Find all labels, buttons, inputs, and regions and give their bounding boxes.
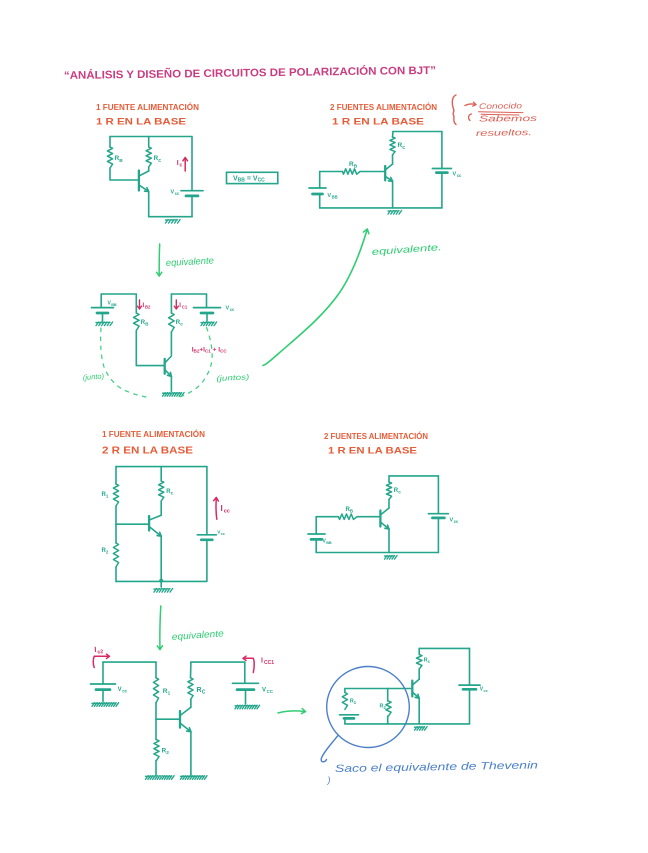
resistor R1 circuit5: [155, 662, 157, 678]
resistor R2 circuit5: [155, 719, 157, 739]
svg-text:Sabemos: Sabemos: [479, 113, 538, 124]
wire top rail circuit3: [116, 466, 207, 468]
current arrow Ic: [184, 158, 186, 171]
transistor Q1: [138, 171, 140, 191]
ground circuit4: [385, 556, 398, 560]
blue circle thevenin: [327, 667, 410, 748]
wire top rail left circuit5: [103, 661, 156, 663]
wire drop to Vcc equiv: [206, 294, 208, 308]
resistor R1 circuit6: [344, 689, 346, 693]
wire top rail circuit1: [110, 136, 192, 138]
wire Rc to top rail circuit5: [190, 662, 192, 678]
svg-text:2 FUENTES ALIMENTACIÓN: 2 FUENTES ALIMENTACIÓN: [324, 432, 428, 441]
battery Vcc right circuit5: [233, 682, 259, 684]
svg-text:c: c: [158, 158, 161, 164]
wire R2 to bottom circuit3: [115, 567, 117, 581]
svg-text:equivalente: equivalente: [171, 628, 224, 643]
battery Vcc equiv: [194, 307, 221, 309]
svg-text:cc: cc: [484, 689, 488, 693]
note box VBB = VCC: [227, 172, 278, 183]
wire VBB to bottom rail: [319, 194, 321, 208]
wire Rc to collector circuit4: [388, 500, 390, 509]
arrow to Conocido: [465, 104, 476, 106]
battery Vcc circuit1: [181, 190, 203, 192]
battery Vcc circuit4: [428, 513, 448, 515]
svg-text:I: I: [177, 160, 179, 167]
battery VBB circuit2: [309, 187, 326, 189]
svg-text:BB: BB: [111, 303, 117, 307]
ground VBB equiv: [96, 322, 113, 326]
svg-text:Saco el equivalente de The: Saco el equivalente de Thevenin: [335, 759, 538, 775]
wire right rail circuit2 bottom: [441, 173, 443, 208]
transistor Q5: [179, 711, 181, 728]
resistor R2 circuit3: [115, 524, 117, 543]
junction dot circuit3: [159, 579, 163, 583]
wire emitter down circuit4: [388, 529, 390, 553]
svg-text:cc: cc: [457, 173, 462, 178]
resistor RB: [107, 147, 112, 168]
wire right rail circuit4 top: [437, 476, 439, 514]
svg-text:B: B: [350, 509, 353, 514]
wire right rail circuit4 bottom: [437, 518, 439, 553]
resistor R2 circuit6: [387, 689, 389, 702]
svg-text:): ): [327, 775, 331, 785]
wire bottom rail circuit3: [116, 580, 206, 582]
svg-text:IB2+IC1 + ICC: IB2+IC1 + ICC: [192, 347, 228, 354]
wire top rail circuit2: [393, 131, 442, 133]
wire base to R1 circuit6: [345, 688, 388, 690]
battery Vcc circuit2: [432, 168, 451, 170]
ground Vcc right circuit5: [235, 705, 260, 709]
svg-text:BB: BB: [332, 195, 338, 200]
resistor RB circuit2 on base wire: [320, 171, 343, 173]
wire top left branch equiv: [101, 293, 136, 295]
svg-text:V: V: [118, 687, 122, 693]
svg-text:2 R EN LA BASE: 2 R EN LA BASE: [102, 446, 194, 457]
wire right rail circuit3 top: [206, 467, 208, 535]
wire Vcc to ground left circuit5: [102, 690, 104, 702]
svg-text:cc: cc: [224, 509, 230, 515]
wire right rail circuit6 top: [469, 648, 471, 685]
svg-text:B2: B2: [145, 304, 151, 309]
svg-text:1: 1: [354, 700, 357, 705]
transistor Q2: [384, 166, 386, 180]
wire top right branch equiv: [171, 293, 206, 295]
svg-text:resueltos.: resueltos.: [476, 127, 532, 138]
wire base circuit6: [388, 688, 413, 690]
wire right rail circuit2 top: [441, 132, 443, 169]
current arrow IB2: [139, 300, 141, 309]
ground circuit3: [160, 581, 162, 587]
current arrow ICC1: [244, 658, 255, 672]
ground Vcc left circuit5: [92, 703, 119, 707]
svg-text:cc: cc: [122, 689, 127, 694]
dashed arc right juntos: [178, 328, 212, 398]
svg-text:c: c: [428, 659, 431, 664]
svg-text:1 R EN LA BASE: 1 R EN LA BASE: [96, 117, 186, 128]
resistor Rc circuit6: [418, 648, 420, 654]
wire bottom rail circuit6: [345, 723, 470, 725]
battery below R1 circuit6: [340, 714, 359, 716]
svg-text:CC: CC: [267, 689, 274, 694]
svg-text:1 R EN LA BASE: 1 R EN LA BASE: [332, 117, 424, 128]
wire Rc to collector: [148, 167, 150, 171]
transistor Q3: [148, 516, 150, 531]
wire left drop to VBB circuit4: [315, 517, 317, 534]
wire Rc to collector circuit3: [160, 501, 162, 515]
resistor Rc: [148, 137, 150, 148]
arrow equivalente down 1: [158, 244, 161, 276]
wire battery to bottom rail circuit6: [344, 718, 346, 724]
current arrow Icc: [215, 498, 218, 519]
svg-text:1: 1: [168, 691, 171, 697]
svg-text:B: B: [145, 322, 148, 327]
svg-text:(juntos): (juntos): [216, 372, 250, 383]
svg-text:C: C: [202, 690, 206, 696]
resistor Rc circuit4: [388, 476, 390, 482]
svg-text:Conocido: Conocido: [479, 101, 523, 111]
wire emitter down circuit2: [392, 181, 394, 208]
svg-text:2: 2: [166, 750, 169, 756]
svg-text:I: I: [261, 658, 263, 665]
svg-text:c: c: [171, 491, 174, 496]
brace annotation: [452, 95, 456, 125]
wire right rail top: [191, 137, 193, 191]
blue curl: [321, 736, 338, 762]
arrow equivalente curve: [263, 230, 367, 366]
wire right rail bottom: [191, 196, 193, 217]
wire left drop to VBB: [319, 172, 321, 189]
resistor Rc circuit5: [188, 678, 193, 700]
wire Vcc to ground right circuit5: [245, 690, 247, 704]
wire right rail circuit6 bottom: [469, 689, 471, 724]
wire RB to base node: [110, 168, 139, 180]
ground R2 circuit5: [146, 776, 175, 780]
wire left drop to RB: [109, 137, 111, 148]
svg-text:equivalente.: equivalente.: [371, 242, 442, 258]
wire emitter down circuit3: [160, 536, 162, 581]
svg-text:2: 2: [106, 550, 109, 555]
resistor RB circuit4 on base wire: [316, 516, 338, 518]
wire emitter to ground equiv: [170, 376, 172, 391]
wire Rc to collector equiv: [170, 332, 172, 355]
svg-text:“ANÁLISIS Y DISEÑO DE CIRC: “ANÁLISIS Y DISEÑO DE CIRCUITOS DE POLAR…: [64, 64, 436, 82]
wire R1 to base circuit5: [155, 703, 157, 720]
svg-text:equivalente: equivalente: [166, 255, 215, 268]
wire base circuit5: [156, 718, 180, 720]
wire base circuit3: [116, 523, 149, 525]
svg-text:c: c: [402, 145, 405, 151]
note text Sabemos: [469, 114, 472, 121]
resistor R1 circuit3: [115, 467, 117, 484]
wire RB to base equiv: [136, 331, 164, 366]
resistor Rc circuit2: [392, 132, 395, 138]
transistor Q equiv: [164, 359, 166, 374]
resistor RB equiv: [135, 294, 137, 313]
svg-text:C1: C1: [182, 304, 188, 309]
battery Vcc circuit6: [459, 684, 480, 686]
svg-text:1 FUENTE ALIMENTACIÓN: 1 FUENTE ALIMENTACIÓN: [96, 103, 199, 112]
svg-text:VBB = VCC: VBB = VCC: [233, 176, 265, 184]
ground circuit6: [415, 727, 428, 731]
svg-text:c: c: [398, 490, 401, 495]
wire Vcc to ground equiv: [206, 313, 208, 321]
wire top rail circuit6: [419, 647, 469, 649]
svg-text:c: c: [180, 163, 183, 169]
svg-text:cc: cc: [175, 191, 180, 196]
svg-text:c2: c2: [97, 649, 103, 655]
wire drop to VBB equiv: [100, 294, 102, 308]
svg-text:BB: BB: [326, 541, 332, 545]
wire right rail circuit3 bottom: [206, 540, 208, 582]
current arrow IC2: [93, 656, 109, 667]
svg-text:(junto): (junto): [83, 371, 105, 381]
arrow equivalente down 2: [159, 606, 162, 649]
transistor Q6: [411, 681, 413, 697]
svg-text:B: B: [354, 164, 358, 170]
transistor Q4: [379, 511, 381, 527]
svg-text:1 FUENTE ALIMENTACIÓN: 1 FUENTE ALIMENTACIÓN: [102, 430, 205, 439]
resistor Rc circuit3: [160, 467, 162, 481]
ground equiv emitter: [163, 393, 185, 397]
wire emitter down circuit5: [190, 732, 192, 774]
ground circuit1: [166, 220, 181, 224]
resistor Rc equiv: [170, 294, 172, 313]
wire R2 to bottom rail circuit6: [387, 716, 389, 724]
ground circuit2: [388, 211, 402, 215]
svg-text:2 FUENTES ALIMENTACIÓN: 2 FUENTES ALIMENTACIÓN: [330, 103, 437, 112]
wire drop to Vcc left circuit5: [102, 662, 104, 684]
wire R1 to base node circuit3: [115, 506, 117, 524]
svg-text:V: V: [262, 688, 266, 694]
svg-text:1: 1: [106, 494, 109, 499]
svg-text:cc: cc: [454, 519, 459, 524]
wire emitter down circuit6: [418, 698, 420, 724]
wire top rail circuit4: [389, 475, 438, 477]
current arrow IC1: [175, 300, 177, 309]
battery Vcc left circuit5: [91, 683, 116, 685]
wire VBB to ground equiv: [102, 313, 104, 321]
wire bottom rail circuit4: [316, 552, 438, 554]
svg-text:cc: cc: [221, 532, 225, 536]
arrow to thevenin circuit: [278, 711, 305, 713]
wire VBB to bottom rail circuit4: [315, 539, 317, 552]
svg-text:I: I: [221, 504, 223, 513]
svg-text:1 R EN LA BASE: 1 R EN LA BASE: [328, 446, 417, 457]
wire bottom rail circuit1: [149, 216, 192, 218]
svg-text:B: B: [119, 158, 123, 164]
wire Rc to collector circuit6: [418, 669, 420, 679]
wire top rail right circuit5: [191, 661, 245, 663]
wire Rc to collector circuit2: [392, 155, 394, 164]
ground emitter circuit5: [190, 774, 192, 776]
battery VBB equiv: [92, 307, 114, 309]
wire R2 to ground circuit5: [155, 760, 157, 774]
wire drop to Vcc right circuit5: [244, 662, 246, 683]
wire emitter down: [148, 192, 150, 217]
battery VBB circuit4: [308, 533, 325, 535]
wire bottom rail circuit2: [320, 207, 442, 209]
svg-text:cc: cc: [230, 307, 235, 312]
ground Vcc equiv: [201, 322, 217, 326]
svg-text:c: c: [180, 322, 183, 327]
svg-text:CC1: CC1: [264, 660, 274, 666]
dashed arc left junto: [101, 328, 149, 398]
battery Vcc circuit3: [197, 534, 216, 536]
wire collector to Rc circuit5: [190, 700, 192, 708]
